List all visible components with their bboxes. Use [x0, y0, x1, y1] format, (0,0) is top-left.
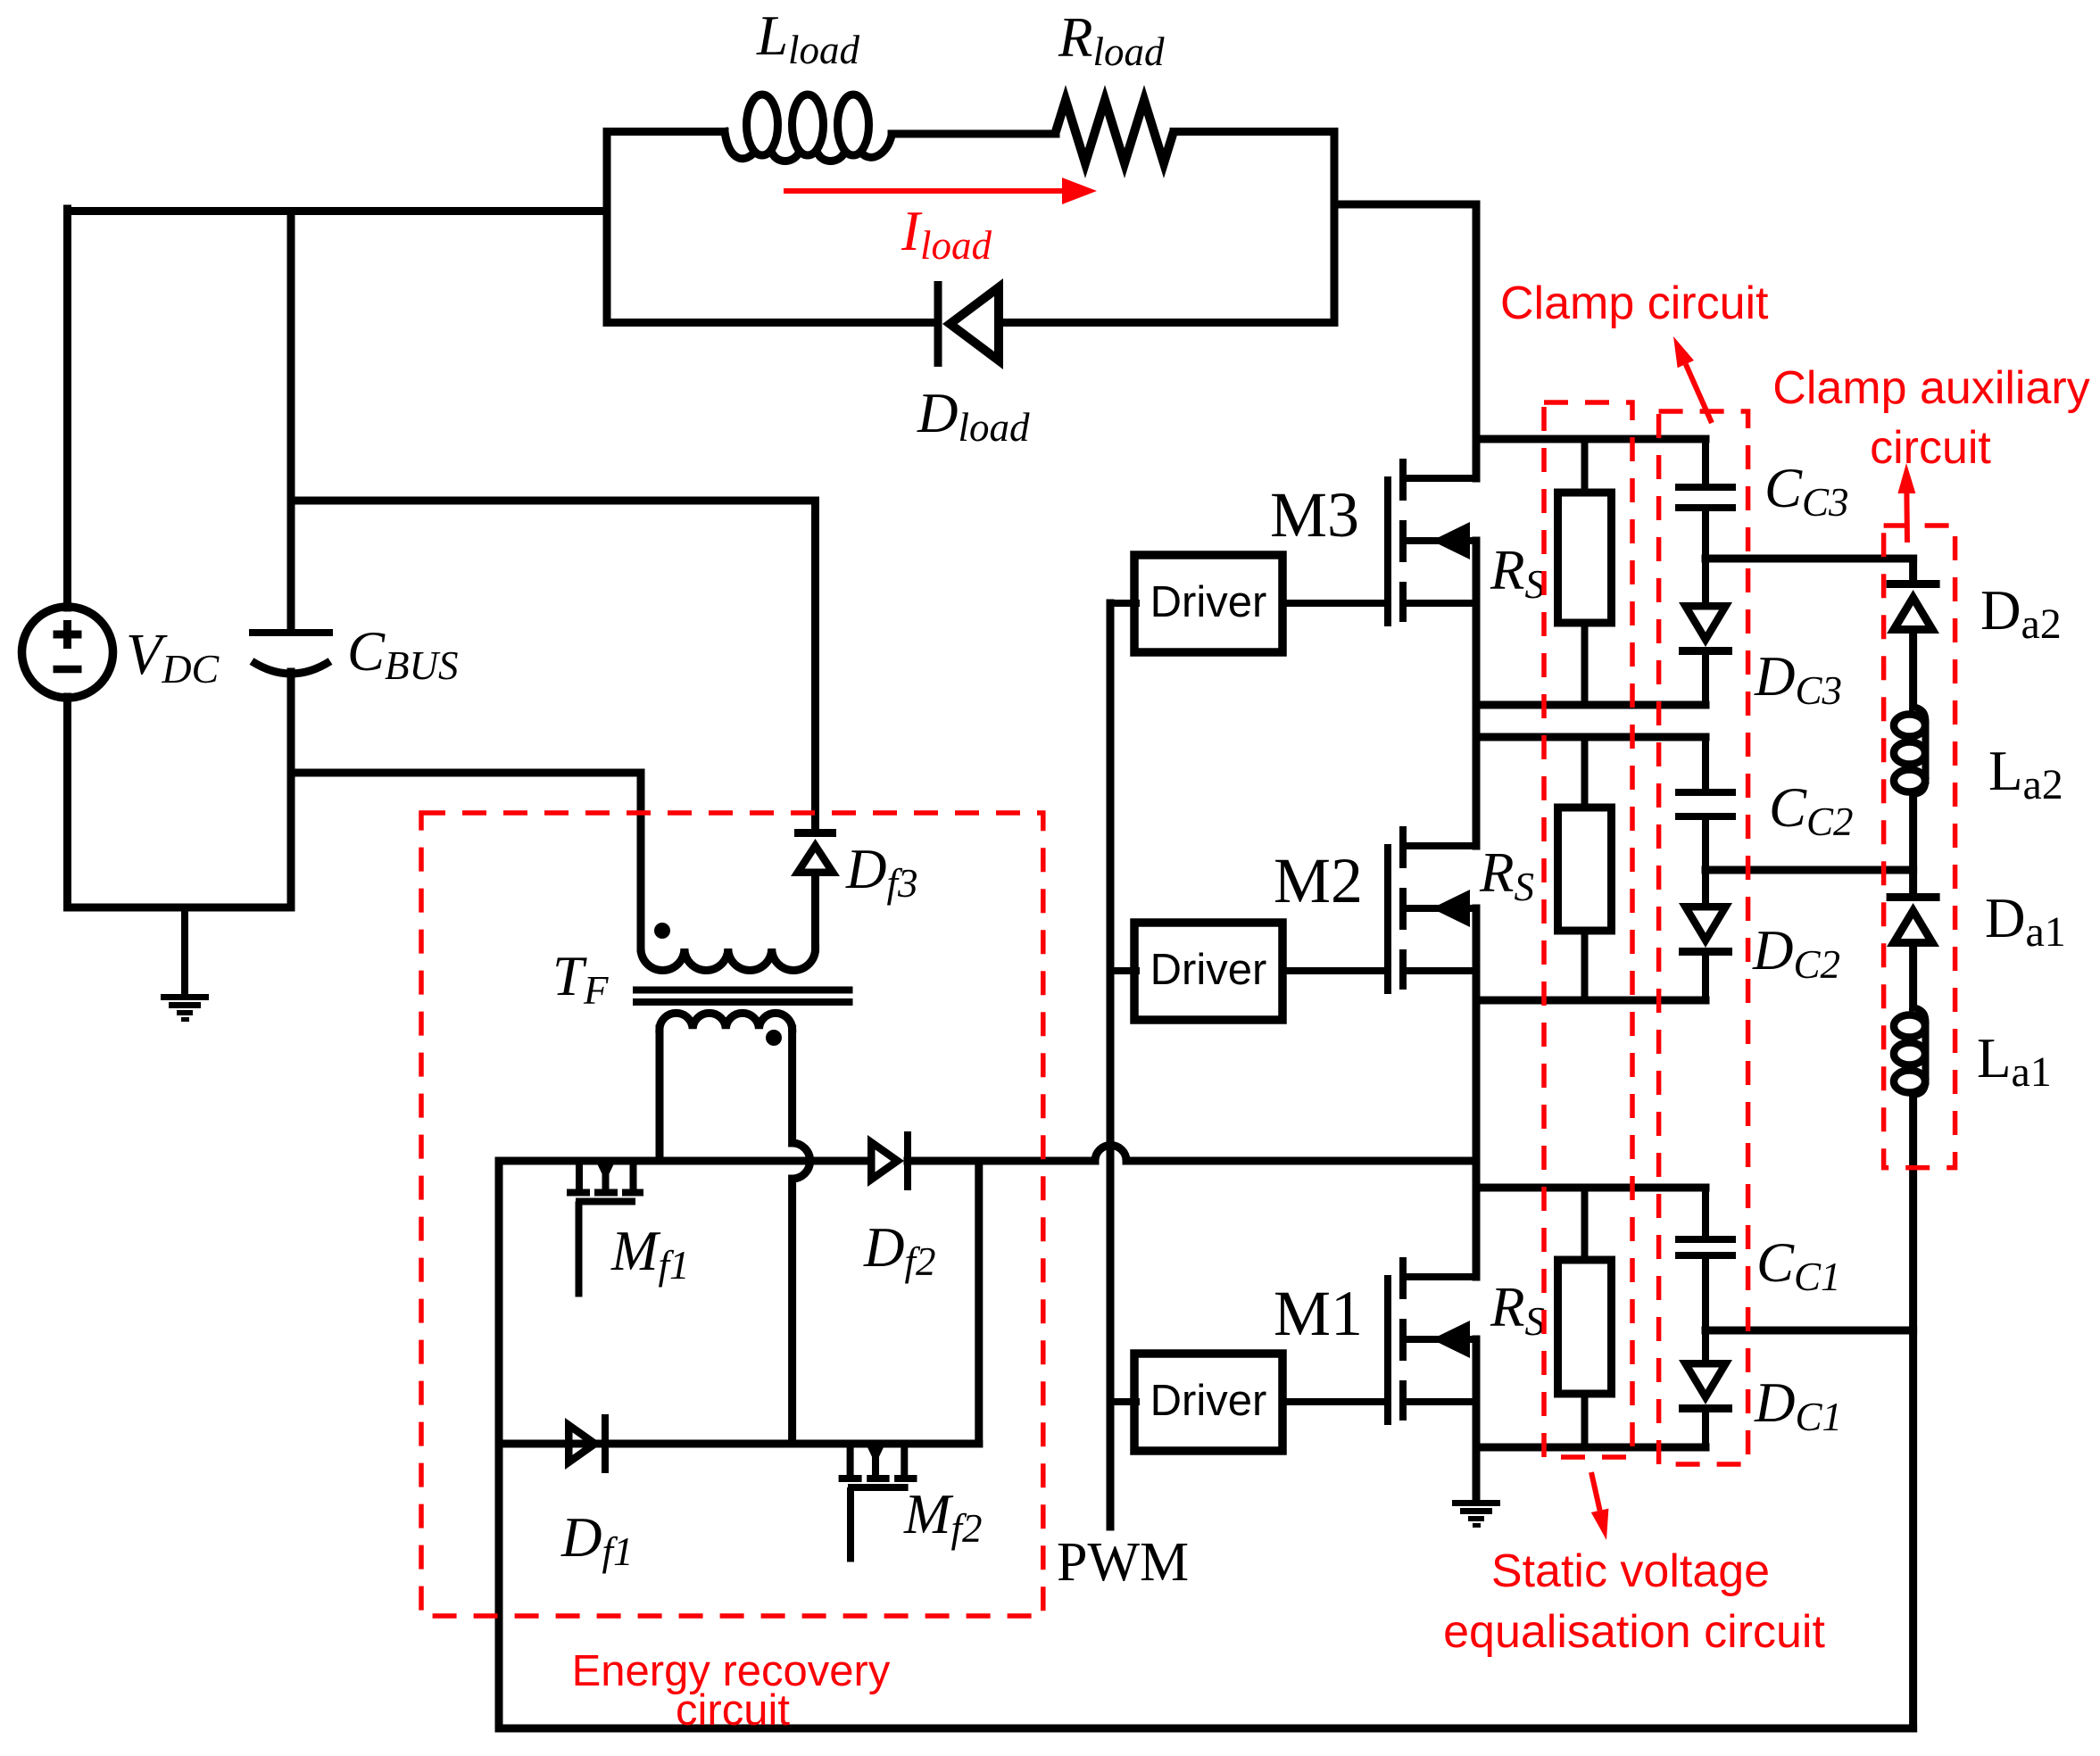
wire: CBUS negative branch to transformer primary: [291, 769, 641, 777]
svg-text:RS: RS: [1490, 1276, 1545, 1344]
wire: loop top right segment: [1174, 128, 1334, 136]
svg-text:Da2: Da2: [1980, 579, 2062, 648]
svg-text:Lload: Lload: [756, 4, 860, 72]
box: static voltage equalisation circuit (dashed): [1544, 402, 1632, 1457]
diode Da2: [1887, 580, 1940, 707]
wire: top DC bus from VDC to load loop: [68, 207, 608, 215]
svg-text:Rload: Rload: [1058, 6, 1165, 74]
inductor La1: [1894, 1007, 1926, 1095]
wire: bottom negative bus VDC to CBUS: [68, 904, 292, 912]
capacitor CBUS: [249, 211, 333, 908]
MOSFET Mf1: [567, 1161, 643, 1294]
wire: cell3 clamp junction to auxiliary column: [1706, 555, 1913, 563]
svg-text:CC2: CC2: [1769, 776, 1854, 844]
wire: bottom return bus: [499, 1725, 1913, 1733]
svg-text:Df1: Df1: [560, 1506, 634, 1574]
wire: loop top between L and R: [892, 130, 1056, 138]
transistor M1: [1384, 1257, 1476, 1425]
diode Df2: [867, 1131, 911, 1190]
wire: PWM gate rail: [1107, 603, 1115, 1527]
wire: vertical down to primary left end: [637, 773, 645, 948]
diode Da1: [1887, 893, 1940, 1007]
capacitor CC2: [1675, 737, 1736, 870]
wire: load loop bottom (freewheel) left part: [607, 319, 934, 327]
svg-text:TF: TF: [552, 945, 609, 1013]
wire: aux chain between La2 and Da1: [1909, 792, 1917, 893]
wire: load loop top left segment: [607, 128, 725, 136]
resistor RS (cell 3): [1558, 439, 1612, 705]
driver box Driver (M3): [1110, 555, 1384, 652]
transformer TF secondary winding: [660, 1013, 793, 1046]
svg-text:Driver: Driver: [1150, 1377, 1267, 1425]
box: clamp circuit (dashed): [1659, 411, 1748, 1464]
wire: cell2 top rail: [1476, 733, 1706, 741]
svg-text:Da1: Da1: [1985, 887, 2066, 956]
resistor Rload: [1056, 100, 1174, 163]
svg-text:Dload: Dload: [917, 382, 1030, 450]
svg-text:La1: La1: [1977, 1027, 2052, 1096]
svg-text:La2: La2: [1988, 740, 2063, 808]
wire: aux chain bottom vertical to return bus: [1909, 1094, 1917, 1728]
svg-text:equalisation circuit: equalisation circuit: [1443, 1606, 1825, 1658]
svg-text:M1: M1: [1274, 1278, 1363, 1349]
arrow: static voltage pointer: [1591, 1472, 1600, 1511]
wire: cell3 top rail: [1476, 435, 1706, 443]
wire: M3 source to M2 drain: [1473, 541, 1481, 846]
wire: recovery left vertical: [495, 1161, 503, 1728]
wire: lower recovery net (Df1 / Mf2): [499, 1440, 979, 1448]
wire: M1 source to ground: [1473, 1339, 1481, 1500]
wire: M2 source to M1 drain: [1473, 908, 1481, 1277]
wire: cell2 bottom rail: [1476, 997, 1706, 1005]
svg-text:DC1: DC1: [1754, 1371, 1842, 1439]
svg-text:circuit: circuit: [1870, 422, 1991, 474]
inductor La2: [1894, 707, 1926, 794]
wire: cell1 top rail: [1476, 1184, 1706, 1192]
svg-text:Mf1: Mf1: [610, 1220, 690, 1288]
inductor Lload: [725, 95, 892, 162]
transformer TF core: [636, 987, 850, 994]
wire: cell2 clamp junction to auxiliary column: [1706, 866, 1913, 874]
svg-text:Df2: Df2: [863, 1216, 936, 1284]
ground symbol (M1 source): [1452, 1500, 1500, 1528]
svg-text:M3: M3: [1270, 479, 1359, 551]
wire: load loop right vertical: [1331, 132, 1339, 323]
resistor RS (cell 1): [1558, 1188, 1612, 1447]
wire: cell3 bottom rail: [1476, 701, 1706, 709]
svg-text:Clamp circuit: Clamp circuit: [1500, 277, 1769, 329]
svg-text:RS: RS: [1479, 841, 1534, 909]
svg-text:DC2: DC2: [1752, 919, 1840, 987]
transformer TF primary winding: [641, 923, 816, 970]
wire: cell1 clamp junction to auxiliary column: [1706, 1327, 1913, 1335]
wire: secondary left terminal: [656, 1029, 664, 1161]
wire: Df2 output down to lower net: [975, 1161, 983, 1444]
wire: M column top vertical to M3 drain: [1473, 204, 1481, 478]
wire: upper recovery net (Mf1 / Df2 / PWM node): [499, 1157, 864, 1165]
svg-text:Mf2: Mf2: [903, 1483, 983, 1551]
svg-text:Df3: Df3: [845, 838, 918, 906]
svg-text:Static voltage: Static voltage: [1491, 1545, 1770, 1597]
svg-text:CC1: CC1: [1756, 1231, 1841, 1299]
box: clamp auxiliary circuit (dashed): [1884, 526, 1955, 1168]
arrow: clamp circuit pointer: [1686, 364, 1712, 423]
resistor RS (cell 2): [1558, 737, 1612, 1000]
svg-text:VDC: VDC: [126, 622, 220, 692]
current arrow Iload (red): [784, 188, 1071, 194]
svg-text:circuit: circuit: [676, 1686, 790, 1735]
wire: cell1 bottom rail: [1476, 1444, 1706, 1452]
transistor M2: [1384, 826, 1476, 994]
driver box Driver (M2): [1110, 923, 1384, 1020]
capacitor CC3: [1675, 439, 1736, 559]
box: energy recovery circuit (dashed): [421, 813, 1043, 1616]
svg-text:Driver: Driver: [1150, 946, 1267, 994]
diode DC1: [1679, 1330, 1732, 1447]
capacitor CC1: [1675, 1188, 1736, 1330]
svg-text:M2: M2: [1274, 845, 1363, 916]
diode Df1: [565, 1414, 609, 1473]
wire: aux chain top lead: [1909, 559, 1917, 580]
svg-text:Driver: Driver: [1150, 578, 1267, 626]
svg-text:DC3: DC3: [1754, 645, 1842, 713]
arrow: clamp auxiliary pointer: [1904, 493, 1910, 543]
wire: VDC negative lead: [63, 697, 71, 907]
svg-text:CC3: CC3: [1764, 457, 1849, 525]
wire: load loop left vertical: [603, 132, 611, 323]
wire: CBUS positive branch to Df3: [291, 497, 816, 505]
svg-text:RS: RS: [1490, 539, 1545, 607]
wire: left vertical VDC positive lead: [63, 209, 71, 608]
diode Df3: [791, 829, 840, 948]
ground symbol (DC bus): [161, 907, 209, 1022]
wire: load loop bottom right part: [999, 319, 1334, 327]
svg-text:Iload: Iload: [901, 200, 992, 268]
diode Dload: [934, 278, 1004, 369]
driver box Driver (M1): [1110, 1354, 1384, 1451]
wire: vertical down to Df3 cathode: [811, 501, 819, 831]
MOSFET Mf2: [839, 1444, 917, 1559]
svg-text:Clamp auxiliary: Clamp auxiliary: [1772, 362, 2089, 414]
wire: load loop to MOSFET column: [1334, 201, 1476, 209]
svg-text:PWM: PWM: [1057, 1532, 1189, 1593]
voltage source VDC: [22, 607, 113, 698]
diode DC2: [1679, 870, 1732, 1000]
transistor M3: [1384, 459, 1476, 626]
wire: secondary right terminal with crossover hop: [793, 1029, 810, 1444]
diode DC3: [1679, 559, 1732, 705]
svg-text:CBUS: CBUS: [347, 620, 459, 688]
